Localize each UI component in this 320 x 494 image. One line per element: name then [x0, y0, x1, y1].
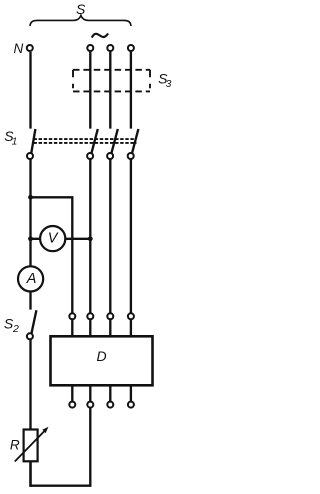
svg-text:R: R — [10, 437, 20, 452]
svg-text:N: N — [14, 41, 24, 56]
svg-text:1: 1 — [12, 136, 18, 147]
svg-text:D: D — [96, 348, 106, 364]
svg-text:2: 2 — [12, 323, 19, 335]
svg-text:3: 3 — [166, 79, 172, 90]
svg-text:V: V — [48, 230, 59, 246]
svg-text:S: S — [76, 1, 86, 17]
svg-text:A: A — [26, 271, 37, 287]
